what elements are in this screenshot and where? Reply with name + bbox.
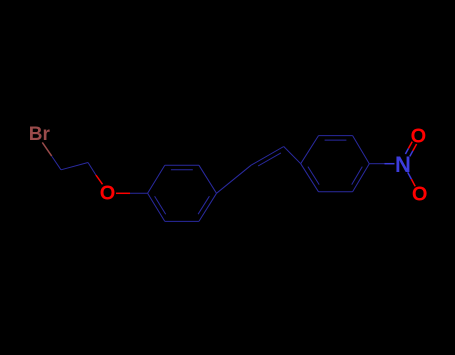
bond Br-C1 (Br half) bbox=[42, 142, 51, 156]
ring1 inner double BL-L bbox=[155, 196, 166, 214]
ring2 edge TL-TR bbox=[319, 135, 353, 137]
ring2 inner double BL-L bbox=[308, 167, 319, 185]
ring2 inner double TL-TR bbox=[325, 139, 347, 141]
svg-text:O: O bbox=[100, 183, 116, 205]
ring1 edge TR-R bbox=[199, 165, 217, 193]
bond C2-O (O half) bbox=[96, 175, 103, 184]
N=O top line-1 (O half) bbox=[409, 142, 413, 149]
N=O top line1 (N half) bbox=[410, 151, 413, 157]
ring2 inner double R-BR bbox=[352, 167, 363, 185]
ring2 edge L-TL bbox=[301, 136, 319, 164]
bond ring1-CHa bbox=[217, 165, 252, 193]
svg-text:O: O bbox=[412, 184, 428, 206]
N-O bottom (N half) bbox=[408, 172, 412, 179]
ring1 edge BR-BL bbox=[165, 220, 199, 222]
bond C2-O (C half) bbox=[88, 163, 96, 176]
bond Br-C1 (C half) bbox=[52, 156, 61, 170]
bond O-ring1 (O half) bbox=[116, 192, 130, 194]
svg-text:N: N bbox=[395, 152, 411, 177]
vinyl C=C second line bbox=[258, 153, 281, 166]
bond ring2-N (N half) bbox=[385, 163, 395, 165]
ring2 edge R-BR bbox=[353, 164, 370, 192]
N-O bottom (O half) bbox=[411, 179, 415, 186]
svg-text:O: O bbox=[411, 125, 427, 147]
vinyl C=C main bbox=[251, 147, 284, 166]
ring1 inner double TL-TR bbox=[171, 169, 193, 171]
bond ring2-N (C half) bbox=[369, 163, 384, 165]
ring1 edge TL-TR bbox=[165, 164, 199, 166]
ring2 edge TR-R bbox=[353, 136, 370, 164]
svg-text:Br: Br bbox=[29, 124, 51, 145]
ring1 edge L-TL bbox=[148, 165, 165, 193]
bond O-ring1 (C half) bbox=[130, 192, 148, 194]
N=O top line1 (O half) bbox=[413, 144, 417, 151]
ring1 edge BL-L bbox=[148, 193, 165, 221]
N=O top line-1 (N half) bbox=[405, 148, 408, 154]
ring2 edge BL-L bbox=[301, 164, 319, 192]
bond CHb-ring2 bbox=[284, 147, 301, 164]
ring1 edge R-BR bbox=[199, 193, 217, 221]
ring1 inner double R-BR bbox=[198, 196, 209, 214]
bond C1-C2 bbox=[61, 163, 88, 170]
ring2 edge BR-BL bbox=[319, 191, 353, 193]
